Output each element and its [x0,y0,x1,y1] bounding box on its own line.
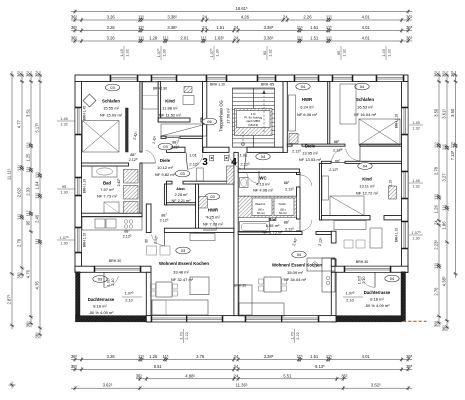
svg-text:2.26: 2.26 [303,15,312,20]
WC-R toilet [240,178,249,188]
svg-text:NF 9.82 m²: NF 9.82 m² [155,172,176,177]
wall below HWR-R and Schlafen-R (Diele-R north edge) [287,144,292,146]
svg-text:887: 887 [284,181,290,185]
svg-text:1.51: 1.51 [310,25,319,30]
svg-text:887: 887 [130,153,136,157]
window/door living-R bottom [246,316,318,322]
bath fixtures Bad-L: bidet [124,186,139,200]
svg-text:4.26: 4.26 [241,15,250,20]
svg-text:15.55 m²: 15.55 m² [103,106,119,111]
svg-text:NF 6.75 m²: NF 6.75 m² [262,229,283,234]
wall HWR-R | Schlafen-R [328,82,330,145]
terrace left parapet west [76,272,81,322]
svg-text:2.79: 2.79 [16,238,21,247]
svg-text:1.45: 1.45 [381,49,386,57]
door arc Kind-L [168,137,179,150]
svg-text:1.70: 1.70 [178,331,183,339]
svg-text:2.125: 2.125 [123,234,132,238]
svg-text:1.32: 1.32 [412,183,420,188]
door arc WC-R [247,173,259,183]
exterior wall right [402,82,409,273]
window Schlafen-R top wide [377,75,403,82]
svg-text:1.01: 1.01 [189,153,198,158]
dimension chain top row 1 [71,19,412,21]
svg-text:2.10: 2.10 [111,278,115,285]
svg-text:3.26: 3.26 [107,15,116,20]
svg-text:Dachterrasse: Dachterrasse [88,297,115,302]
svg-text:8.18 m²: 8.18 m² [370,297,384,302]
svg-text:(15x13): (15x13) [248,123,258,127]
armchairs top living-L [147,246,157,255]
svg-text:NF 13.53 m²: NF 13.53 m² [299,157,322,162]
door arc Kind-R [332,149,344,162]
svg-text:BRH 30: BRH 30 [356,260,369,264]
window Bad-L west [75,178,82,195]
svg-text:NF 7.03 m²: NF 7.03 m² [203,222,224,227]
svg-text:1.26: 1.26 [434,205,439,214]
svg-text:3: 3 [202,157,208,168]
svg-text:03: 03 [180,171,185,176]
svg-text:04: 04 [363,164,368,169]
svg-text:BRH 30: BRH 30 [109,259,122,263]
wall Abst-L west [164,184,166,205]
shaft top edge [238,195,296,197]
window living-R east [402,222,409,248]
svg-text:3.50: 3.50 [450,108,455,117]
svg-text:35.09 m²: 35.09 m² [287,270,303,275]
window BRH 30 above terrace left [95,266,140,272]
window Schlafen-R east [402,108,409,134]
svg-text:1.30: 1.30 [214,48,219,56]
exterior wall bottom-right (side rooms) [331,266,408,272]
svg-text:BRH 1.10: BRH 1.10 [395,114,399,128]
svg-text:1.075: 1.075 [125,292,134,296]
bed Schlafen-R [340,84,356,124]
svg-text:1.70: 1.70 [289,331,294,339]
svg-text:1.51: 1.51 [310,354,319,359]
svg-text:4.77: 4.77 [16,119,21,128]
svg-text:1.25: 1.25 [26,153,31,162]
living room west exterior wall (left unit) [146,272,151,322]
svg-text:24: 24 [202,25,207,30]
svg-text:24: 24 [283,15,288,20]
apartment door 3 with swing arc [187,154,202,169]
svg-text:95: 95 [336,51,341,55]
svg-text:06: 06 [207,119,212,124]
svg-text:1.51: 1.51 [216,25,225,30]
svg-text:BRH 1.45: BRH 1.45 [83,106,87,120]
svg-text:1.45: 1.45 [60,116,68,121]
svg-text:3.50: 3.50 [433,108,438,117]
svg-text:03: 03 [98,277,103,282]
svg-text:24: 24 [202,15,207,20]
wall Schlafen-L | Kind-L [140,82,142,153]
svg-text:2.125: 2.125 [329,168,338,172]
room number oval Kind-R [358,163,372,170]
room number oval Schlafen-L [105,84,119,91]
svg-text:1.26: 1.26 [149,36,158,41]
wall HWR-L west [196,184,199,233]
window Schlafen-L top [111,75,137,82]
svg-text:80: 80 [144,239,148,243]
bath fixtures Bad-L: vanity with basin [92,166,117,177]
elevator reserve hatched box [235,109,273,136]
svg-text:2.01: 2.01 [180,36,189,41]
closet band between Kind-L and Diele-L [161,124,207,136]
svg-text:04: 04 [261,154,266,159]
dimension chain bottom row 1 [71,359,412,361]
stairwell east wall [283,82,287,153]
svg-text:1.30: 1.30 [412,235,420,240]
svg-text:1.015: 1.015 [107,277,111,286]
window Kind-R east [402,172,409,198]
bath fixtures Bad-L: wc [124,170,139,184]
exterior wall top [75,75,408,82]
svg-text:24: 24 [234,354,239,359]
svg-text:1.32: 1.32 [124,49,129,57]
svg-text:NF 34.04 m²: NF 34.04 m² [284,277,307,282]
svg-text:11.88 m²: 11.88 m² [162,106,178,111]
svg-text:1.32: 1.32 [267,49,272,57]
kitchen counter left unit with sink and hob [82,217,142,230]
svg-text:04: 04 [390,276,395,281]
wall HWR-L bottom (living-L north edge) [164,228,234,232]
room number oval Schlafen-R [355,83,369,90]
svg-text:NF 7.73 m²: NF 7.73 m² [97,194,118,199]
svg-text:Schlafen: Schlafen [102,99,120,104]
svg-text:2.125: 2.125 [333,149,342,153]
window/door living-L bottom [152,316,222,322]
sofa living-L [152,300,208,315]
dimension chain overall width 18.61⁵ [71,11,412,13]
dimension chain bottom row 3 [136,378,347,380]
room number oval stairwell [202,118,216,125]
svg-text:13.11 m²: 13.11 m² [359,184,375,189]
dimension chain top row 3 [71,40,412,42]
svg-text:5.51: 5.51 [283,373,292,378]
dimension chain left col 4 [39,71,41,338]
svg-text:Wohnen/ Essen/ Kochen: Wohnen/ Essen/ Kochen [159,261,209,266]
window Schlafen-R top small [333,75,352,82]
svg-text:95: 95 [262,51,267,55]
door arc WC-R [300,175,312,186]
svg-text:8.51: 8.51 [154,364,163,369]
svg-text:3.76: 3.76 [196,354,205,359]
wall Bad-R south (living-R north edge) [238,232,302,235]
wall Abst-L top / HWR-L top [167,181,173,184]
svg-text:1.30: 1.30 [60,189,68,194]
svg-text:24: 24 [234,36,239,41]
svg-text:1.01: 1.01 [240,153,249,158]
svg-text:887: 887 [334,140,340,144]
svg-text:1.32: 1.32 [60,121,68,126]
svg-text:95: 95 [62,184,66,189]
roof slope triangle Kind-R [330,196,364,216]
svg-text:NF 16.04 m²: NF 16.04 m² [354,112,377,117]
svg-text:NF 6.06 m²: NF 6.06 m² [297,112,318,117]
svg-text:2.33: 2.33 [26,187,31,196]
room number oval Wohnen-L [176,247,190,254]
apartment door 4 with swing arc [229,154,244,169]
wall Kind-R north (Diele-R south edge) [322,161,332,163]
svg-text:NF 2.21 m²: NF 2.21 m² [172,199,192,203]
svg-text:04: 04 [301,84,306,89]
svg-text:1.075: 1.075 [346,292,355,296]
svg-text:Schlafen: Schlafen [356,97,374,102]
svg-text:3.51: 3.51 [25,108,30,117]
svg-text:4.76: 4.76 [34,281,39,290]
sideboard Kind-R / nook [334,221,366,230]
room number oval Diele-L [175,170,189,177]
dimension chain right col 2 [446,71,448,331]
shower Bad-L [104,202,119,213]
svg-text:3.27: 3.27 [441,173,446,182]
svg-text:-50 % 4.09 m²: -50 % 4.09 m² [88,310,114,315]
living room east exterior wall (right unit) [331,272,336,322]
door arc HWR-L [205,217,216,230]
shaft fixtures near party wall left [227,166,234,184]
exterior wall left [75,82,82,273]
dimension chain left col 1 overall [11,71,13,329]
door arc terrace-L [104,276,118,287]
window Schlafen-L west [75,108,82,134]
svg-text:95: 95 [26,220,31,225]
svg-text:7.25 m²: 7.25 m² [206,215,220,220]
svg-text:2.45: 2.45 [35,214,40,223]
svg-text:Diele: Diele [305,144,316,149]
svg-text:8.18 m²: 8.18 m² [93,304,107,309]
svg-text:Treppenhaus OG: Treppenhaus OG [219,100,224,131]
svg-text:(60 x: (60 x [280,208,286,212]
door arc Schlafen-L [145,150,155,163]
bath fixtures Bad-L: radiator [124,202,139,214]
svg-text:4.01: 4.01 [362,15,371,20]
svg-text:Waschm.: Waschm. [255,202,266,206]
wardrobe Kind-R west wall [322,176,329,200]
svg-text:24: 24 [234,25,239,30]
svg-text:HWR: HWR [208,208,219,213]
svg-text:BRH 1.10: BRH 1.10 [83,179,87,193]
svg-text:2.10: 2.10 [346,299,353,303]
svg-text:04: 04 [360,84,365,89]
svg-text:1.45: 1.45 [412,178,420,183]
door symbol next to door 4 [225,155,229,161]
svg-text:2.125: 2.125 [160,218,169,222]
svg-text:887: 887 [172,141,178,145]
svg-text:13.95 m²: 13.95 m² [302,151,318,156]
room number oval Dachterrasse-R [385,275,399,282]
wall Kind-L bottom [161,136,166,138]
svg-text:NF 12.72 m²: NF 12.72 m² [356,191,379,196]
exterior wall bottom of living rooms [146,316,336,322]
svg-text:NF 15.09 m²: NF 15.09 m² [100,113,123,118]
window stairwell top-left [207,75,226,82]
svg-text:887: 887 [335,159,341,163]
cupboard square living-L [190,277,209,295]
Bad-R bathtub [240,222,270,233]
svg-text:17.66 m²: 17.66 m² [226,107,231,123]
shelf HWR-R west wall [289,95,296,131]
elevator reserve label box [237,111,271,128]
wall pier left of living-L entrance [146,204,151,233]
fixtures left HWR washer [199,197,208,209]
svg-text:03: 03 [110,85,115,90]
svg-text:3.26: 3.26 [107,354,116,359]
svg-text:33.48 m²: 33.48 m² [173,270,189,275]
svg-text:1.32: 1.32 [412,125,420,130]
svg-text:4.76: 4.76 [26,269,31,278]
roof slope triangle Schlafen-L [83,121,120,152]
shaft washer dryer right unit [238,196,296,217]
sideboard below HWR wall in living-L [190,234,215,241]
stairwell south wall with apartment doors 3 and 4 [167,147,186,152]
svg-text:887: 887 [284,221,290,225]
svg-text:60 cm): 60 cm) [257,211,265,215]
closet bar in Schlafen-L [126,108,129,152]
svg-text:BRH 1.10: BRH 1.10 [210,82,225,86]
door arc Schlafen-R [346,149,360,161]
sofa living-R [239,285,252,315]
svg-text:(60 x: (60 x [258,208,264,212]
svg-text:1.32: 1.32 [341,49,346,57]
dimension chain bottom row 4 [71,387,412,389]
door symbol next to door 3 [210,155,214,161]
wall WC-R north [238,169,299,172]
svg-text:7.97 m²: 7.97 m² [100,187,114,192]
room number oval Wohnen-R [292,251,306,258]
dimension chain bottom row 2 [71,368,412,370]
svg-text:1.86: 1.86 [442,221,447,230]
room number oval Diele-L upper [158,143,172,150]
svg-text:24: 24 [433,220,438,225]
wall Abst-L bottom [167,203,196,205]
closet in niche between Schlafen-L and Kind-L [143,82,159,109]
svg-text:BRH 1.10: BRH 1.10 [83,233,87,247]
svg-text:1.30: 1.30 [161,48,166,56]
svg-text:Kind: Kind [165,99,175,104]
terrace right parapet south [336,316,402,322]
window stairwell top-right [258,75,275,82]
svg-text:2.76: 2.76 [433,287,438,296]
wall Kind-L west [158,82,160,123]
svg-text:-50 % 4.09 m²: -50 % 4.09 m² [364,303,390,308]
svg-text:1.45: 1.45 [119,49,124,57]
chairs right nook [344,240,353,248]
svg-text:1.51: 1.51 [310,36,319,41]
door arc terrace-R [361,276,375,287]
exterior wall bottom-left (side rooms, with BRH 30 window zone) [75,266,151,272]
room number oval Diele-R [256,153,270,160]
stairwell west wall [203,82,207,153]
room number oval HWR-R [296,83,310,90]
wall Kind-L south [158,118,190,122]
kitchen counter right unit [307,258,335,271]
svg-text:2.125: 2.125 [285,228,294,232]
svg-text:3.26: 3.26 [107,36,116,41]
svg-text:NF 32.47 m²: NF 32.47 m² [171,277,194,282]
svg-text:03: 03 [181,248,186,253]
svg-text:Trockn.: Trockn. [278,202,287,206]
terrace right parapet east [401,272,406,322]
svg-text:WC: WC [259,176,266,181]
bed diamond Schlafen-L [83,94,96,107]
svg-text:4.01: 4.01 [362,25,371,30]
svg-text:1.45: 1.45 [412,120,420,125]
svg-text:1.30: 1.30 [60,240,68,245]
svg-text:03: 03 [210,194,215,199]
desk Kind-L [183,96,194,105]
svg-text:10.12 m²: 10.12 m² [157,165,173,170]
red property boundary dashed line [403,320,427,322]
door arc Bad-R into corridor [300,220,312,231]
svg-text:Dachterrasse: Dachterrasse [364,290,391,295]
svg-text:04: 04 [297,252,302,257]
svg-text:2.22: 2.22 [184,332,189,340]
heater below Kind-L window [184,87,192,93]
party wall between units [234,152,238,315]
svg-text:BRH 1.10: BRH 1.10 [395,228,399,242]
svg-text:BRH -85: BRH -85 [261,82,274,86]
svg-text:1.32: 1.32 [386,49,391,57]
dimension chain right col 3 [455,71,457,278]
wall Bad-L top (Schlafen-L bottom) [82,163,129,166]
survey cross mark bottom-left [9,384,16,386]
svg-text:2.28 m²: 2.28 m² [175,193,189,197]
svg-text:BRH 30: BRH 30 [234,284,247,288]
svg-text:Diele: Diele [160,158,171,163]
dimension chain left col 3 [30,71,32,327]
svg-text:6.95 m²: 6.95 m² [266,223,280,228]
door arc HWR-R [292,134,299,144]
svg-text:2.125: 2.125 [292,150,301,154]
svg-text:2.425: 2.425 [117,178,121,187]
svg-text:6.24 m²: 6.24 m² [300,105,314,110]
svg-text:2.10: 2.10 [125,299,132,303]
wall Bad-L bottom [82,213,143,216]
svg-text:03: 03 [163,144,168,149]
door arc living-L entry [152,235,165,246]
svg-text:1.26: 1.26 [149,354,158,359]
svg-text:4.01: 4.01 [362,36,371,41]
svg-text:4.01: 4.01 [362,354,371,359]
svg-text:HWR: HWR [302,97,313,102]
roof slope triangle Schlafen-R [359,119,400,145]
window kitchen-L west [75,228,82,252]
svg-text:24: 24 [234,364,239,369]
svg-text:2.125: 2.125 [129,158,138,162]
svg-text:NF 4.06 m²: NF 4.06 m² [253,188,274,193]
svg-text:4.13 m²: 4.13 m² [256,182,270,187]
svg-text:Abst.: Abst. [176,187,186,191]
wall living-R | dining nook with opening [331,231,336,243]
dimension chain top row 2 [71,30,412,32]
window Kind-L top [152,75,176,82]
dimension chain right col 1 [438,71,440,327]
staircase center divider [253,88,255,147]
terrace left parapet south (dashed edge) [76,316,147,322]
dimension chain left col 2 [21,71,23,278]
svg-text:Wohnen/ Essen/ Kochen: Wohnen/ Essen/ Kochen [272,263,322,268]
svg-text:1.04: 1.04 [35,181,40,190]
window HWR-R top [295,75,318,82]
svg-text:24: 24 [234,373,239,378]
dining table left unit with chairs [156,282,172,297]
staircase treads [233,88,275,90]
wall Kind-R west [319,163,321,220]
room number oval HWR-L [205,193,219,200]
svg-text:Kind: Kind [362,177,372,182]
svg-text:NF 11.52 m²: NF 11.52 m² [159,113,182,118]
